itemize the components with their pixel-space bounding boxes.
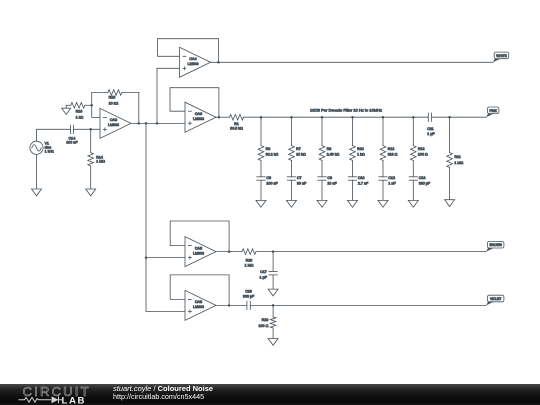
ground under R14 — [86, 189, 96, 196]
resistor R13 — [411, 146, 428, 161]
footer bar — [0, 384, 540, 405]
svg-text:R15: R15 — [109, 95, 116, 99]
svg-text:100 nF: 100 nF — [66, 141, 78, 145]
svg-text:1 µF: 1 µF — [259, 276, 267, 280]
wire node up to OA4 noninverting input — [157, 68, 180, 123]
svg-text:2.49 kΩ: 2.49 kΩ — [327, 153, 340, 157]
resistor R7 — [289, 146, 306, 161]
op-amp OA8 — [185, 290, 216, 320]
ground at R16 — [62, 105, 71, 114]
svg-text:OA4: OA4 — [189, 57, 196, 61]
svg-text:LM833: LM833 — [108, 123, 119, 127]
ground under C12 — [378, 200, 388, 207]
svg-text:R8: R8 — [327, 147, 332, 151]
svg-text:1 nF: 1 nF — [388, 182, 396, 186]
wire ladder R6 top lead — [260, 117, 262, 145]
wire C17 top lead — [272, 252, 274, 272]
svg-text:C19: C19 — [245, 290, 252, 294]
resistor R23 — [258, 317, 275, 328]
wire V1 top to C14 — [37, 129, 71, 141]
svg-text:C7: C7 — [297, 176, 302, 180]
svg-text:R1: R1 — [234, 122, 239, 126]
node OA3 to OA4 branch — [156, 122, 159, 125]
node ladder top R12 — [382, 116, 385, 119]
wire OA6 output to R1 — [216, 116, 230, 118]
svg-text:C10: C10 — [358, 176, 365, 180]
ground under C13 — [408, 200, 418, 207]
svg-text:R7: R7 — [296, 147, 301, 151]
node OA8 output — [228, 304, 231, 307]
svg-text:R20: R20 — [246, 259, 253, 263]
wire R6 to C6 — [260, 160, 262, 176]
ground under C8 — [317, 200, 327, 207]
wire OA8 feedback loop — [170, 275, 229, 306]
svg-text:PINK: PINK — [489, 109, 497, 113]
node ladder top R7 — [290, 116, 293, 119]
svg-text:100 Ω: 100 Ω — [418, 153, 428, 157]
svg-text:OA5: OA5 — [195, 246, 202, 250]
svg-text:1 MΩ: 1 MΩ — [454, 161, 463, 165]
voltage source V1 — [30, 141, 54, 154]
capacitor C6 — [257, 176, 279, 186]
wire C11 to PINK — [432, 116, 487, 118]
node R23 top — [272, 304, 275, 307]
wire R8 to C8 — [321, 160, 323, 176]
wire tap to OA5 noninverting input — [146, 257, 185, 259]
wire ladder R10 top lead — [352, 117, 354, 145]
wire R15 to OA3 output — [138, 93, 140, 124]
wire C13 to ground — [412, 180, 414, 200]
node ladder top R10 — [351, 116, 354, 119]
capacitor C19 — [243, 290, 255, 310]
wire ladder R13 top lead — [412, 117, 414, 145]
resistor R20 — [242, 249, 256, 267]
svg-text:LM833: LM833 — [193, 251, 204, 255]
flag BROWN — [486, 241, 504, 251]
wire C19 to VIOLET — [250, 304, 486, 306]
svg-text:316 Ω: 316 Ω — [388, 153, 398, 157]
resistor R14 — [88, 153, 105, 166]
svg-text:30 nF: 30 nF — [297, 182, 307, 186]
svg-text:10 kΩ: 10 kΩ — [109, 101, 119, 105]
svg-text:C17: C17 — [260, 270, 267, 274]
svg-text:C6: C6 — [266, 176, 271, 180]
node OA5 noninverting tap — [145, 256, 148, 259]
svg-text:1 MΩ: 1 MΩ — [96, 160, 105, 164]
svg-text:LM833: LM833 — [188, 62, 199, 66]
capacitor C14 — [66, 125, 78, 145]
svg-text:C13: C13 — [419, 176, 426, 180]
svg-text:C8: C8 — [327, 176, 332, 180]
svg-text:R13: R13 — [418, 147, 425, 151]
resistor R1 — [230, 114, 244, 130]
svg-text:1 kHz: 1 kHz — [45, 150, 54, 154]
wire R11 top lead — [449, 117, 451, 152]
ground under C6 — [256, 200, 266, 207]
resistor R11 — [447, 153, 464, 168]
svg-text:BROWN: BROWN — [490, 243, 503, 247]
wire R10 to C10 — [352, 160, 354, 176]
wire R11 to ground — [449, 168, 451, 200]
capacitor C17 — [259, 270, 277, 280]
capacitor C7 — [287, 176, 307, 186]
wire R14 to ground — [90, 166, 92, 189]
svg-text:10 kΩ: 10 kΩ — [296, 153, 306, 157]
wire OA5 feedback loop — [170, 221, 229, 252]
wire R23 top lead — [272, 305, 274, 317]
resistor R10 — [350, 146, 365, 161]
wire V1 bottom to ground — [36, 154, 38, 189]
node R16/R15 — [90, 104, 93, 107]
svg-text:1 kΩ: 1 kΩ — [357, 153, 365, 157]
ground under R11 — [445, 200, 455, 207]
flag WHITE — [493, 52, 509, 62]
wire C10 to ground — [352, 180, 354, 200]
node ladder top R13 — [412, 116, 415, 119]
capacitor C12 — [379, 176, 397, 186]
svg-text:1 kΩ: 1 kΩ — [76, 115, 84, 119]
ground under C17 — [268, 289, 278, 296]
wire R7 to C7 — [291, 160, 293, 176]
node OA3 to lower branch — [145, 122, 148, 125]
node ladder top R6 — [260, 116, 263, 119]
wire C8 to ground — [321, 180, 323, 200]
svg-text:R6: R6 — [266, 147, 271, 151]
resistor R8 — [319, 146, 339, 161]
wire R12 to C12 — [382, 160, 384, 176]
resistor R6 — [258, 146, 278, 161]
svg-text:R12: R12 — [388, 147, 395, 151]
wire OA8 output to C19 — [216, 304, 247, 306]
svg-text:LAB: LAB — [62, 395, 87, 404]
wire C6 to ground — [260, 180, 262, 200]
wire R13 to C13 — [412, 160, 414, 176]
wire OA3 node down to OA8 — [146, 123, 185, 311]
CircuitLab logo — [17, 384, 117, 404]
ground under V1 — [32, 189, 42, 196]
capacitor C13 — [409, 176, 431, 186]
flag PINK — [486, 107, 499, 117]
svg-text:1 µF: 1 µF — [427, 132, 435, 136]
capacitor C10 — [348, 176, 369, 186]
capacitor C8 — [318, 176, 338, 186]
wire OA3 output bus — [131, 122, 185, 124]
ground under C10 — [348, 200, 358, 207]
node ladder top R8 — [321, 116, 324, 119]
ground under C7 — [287, 200, 297, 207]
wire ladder R8 top lead — [321, 117, 323, 145]
wire R1 to filter ladder — [244, 116, 428, 118]
wire OA4 feedback loop — [158, 39, 219, 63]
svg-text:10 nF: 10 nF — [327, 182, 337, 186]
ground under R23 — [268, 339, 278, 346]
svg-text:R11: R11 — [454, 155, 460, 159]
op-amp OA5 — [185, 237, 216, 267]
wire OA6 feedback loop — [170, 88, 219, 118]
wire OA5 output to R20 — [216, 251, 242, 253]
svg-text:R10: R10 — [357, 147, 364, 151]
wire C12 to ground — [382, 180, 384, 200]
svg-text:OA3: OA3 — [110, 118, 117, 122]
node at R14 — [89, 128, 92, 131]
svg-text:2.7 nF: 2.7 nF — [358, 182, 369, 186]
op-amp OA3 — [100, 108, 131, 138]
wire ladder R7 top lead — [291, 117, 293, 145]
svg-text:R23: R23 — [262, 318, 269, 322]
wire R14 top lead — [90, 129, 92, 152]
wire R20 to BROWN — [256, 251, 486, 253]
wire C17 to ground — [272, 275, 274, 289]
node C17 top — [272, 250, 275, 253]
flag VIOLET — [486, 295, 504, 305]
capacitor C11 — [427, 113, 435, 136]
svg-text:100 nF: 100 nF — [266, 182, 278, 186]
op-amp OA4 — [180, 47, 211, 77]
svg-text:C12: C12 — [388, 176, 395, 180]
resistor R12 — [380, 146, 397, 161]
svg-text:OA8: OA8 — [195, 300, 202, 304]
wire C7 to ground — [291, 180, 293, 200]
svg-text:VIOLET: VIOLET — [490, 297, 501, 301]
svg-text:WHITE: WHITE — [496, 54, 506, 58]
node OA4 output — [217, 61, 220, 64]
svg-text:330 pF: 330 pF — [419, 182, 431, 186]
wire R16 node down to OA3 inverting input — [92, 93, 100, 118]
wire ladder R12 top lead — [382, 117, 384, 145]
op-amp OA6 — [185, 102, 216, 132]
node OA6 output — [218, 116, 221, 119]
svg-text:330 pF: 330 pF — [243, 295, 255, 299]
wire OA4 output to WHITE — [211, 61, 494, 63]
svg-text:10DB Per Decade Filter 10 Hz t: 10DB Per Decade Filter 10 Hz to 10MHz — [310, 108, 382, 113]
svg-text:C11: C11 — [427, 127, 433, 131]
svg-text:100 Ω: 100 Ω — [258, 324, 268, 328]
resistor R15 — [92, 90, 139, 106]
svg-text:LM833: LM833 — [193, 305, 204, 309]
wire C14 to OA3 noninverting input — [73, 128, 100, 130]
node OA5 output — [228, 250, 231, 253]
svg-text:LM833: LM833 — [193, 117, 204, 121]
svg-text:30.2 kΩ: 30.2 kΩ — [266, 153, 279, 157]
svg-text:1 MΩ: 1 MΩ — [245, 263, 254, 267]
svg-text:66.5 kΩ: 66.5 kΩ — [230, 127, 243, 131]
resistor R16 — [66, 103, 92, 120]
wire R23 to ground — [272, 328, 274, 339]
label filter note — [310, 108, 382, 113]
svg-text:R16: R16 — [76, 109, 83, 113]
node R11 top — [448, 116, 451, 119]
node OA3 feedback — [138, 122, 141, 125]
svg-text:OA6: OA6 — [195, 112, 202, 116]
